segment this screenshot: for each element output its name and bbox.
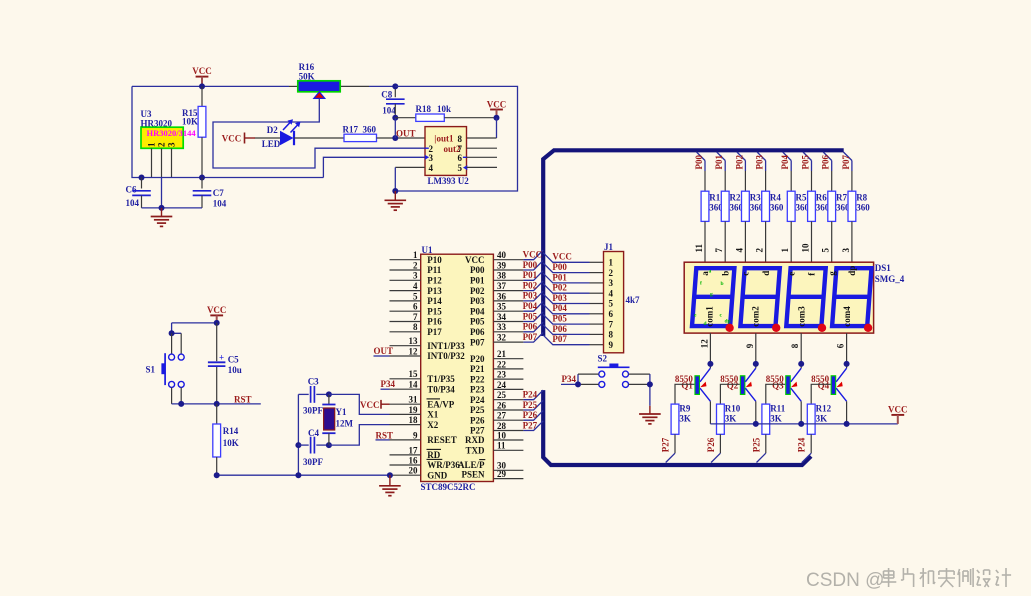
svg-text:e: e bbox=[786, 272, 796, 276]
potentiometer R16 50K bbox=[298, 62, 340, 98]
resistor R6 360 bbox=[808, 191, 830, 221]
svg-text:360: 360 bbox=[770, 202, 784, 212]
wire U1 right pin stubs bbox=[493, 260, 523, 479]
wire U3 pin1 bbox=[151, 148, 153, 177]
resistor R10 3K bbox=[717, 404, 741, 435]
svg-text:R8: R8 bbox=[856, 192, 867, 202]
svg-text:8: 8 bbox=[609, 330, 614, 340]
wire U3 pin3 bbox=[171, 148, 173, 177]
net label P05 J1 side bbox=[552, 314, 567, 324]
svg-text:RST: RST bbox=[234, 394, 252, 404]
watermark CSDN bbox=[806, 568, 1011, 591]
svg-text:3: 3 bbox=[413, 271, 418, 281]
button S1 bbox=[146, 333, 185, 404]
svg-text:P27: P27 bbox=[470, 426, 485, 436]
net label P04 MCU side bbox=[523, 301, 538, 311]
svg-text:104: 104 bbox=[382, 106, 396, 116]
wire Q4 base to R12 bbox=[811, 384, 830, 404]
resistor network J1 4k7 bbox=[604, 242, 641, 353]
node junction S1 top bbox=[169, 330, 175, 336]
svg-text:8: 8 bbox=[790, 343, 800, 348]
svg-text:J1: J1 bbox=[604, 242, 614, 252]
node junction Q4 emitter bbox=[844, 361, 850, 367]
svg-text:b: b bbox=[720, 271, 730, 276]
wire R10 to bus bbox=[711, 434, 720, 462]
svg-text:19: 19 bbox=[409, 405, 419, 415]
svg-text:C5: C5 bbox=[228, 354, 239, 364]
svg-text:R7: R7 bbox=[836, 192, 847, 202]
svg-text:2: 2 bbox=[755, 248, 765, 253]
svg-text:RESET: RESET bbox=[427, 435, 457, 445]
svg-text:3K: 3K bbox=[770, 413, 782, 423]
svg-text:C3: C3 bbox=[308, 376, 319, 386]
svg-text:2: 2 bbox=[413, 260, 418, 270]
svg-text:9: 9 bbox=[745, 343, 755, 348]
node junction ground bbox=[159, 205, 165, 211]
wire bus tap display P04 bbox=[783, 152, 792, 191]
wire bus tap J1 P07 bbox=[543, 335, 603, 345]
net label VCC J1 side bbox=[552, 252, 572, 262]
svg-text:3: 3 bbox=[841, 248, 851, 253]
net label P03 MCU side bbox=[523, 291, 538, 301]
svg-text:P24: P24 bbox=[523, 390, 538, 400]
transistor Q3 8550 bbox=[766, 368, 802, 401]
svg-text:6: 6 bbox=[609, 309, 614, 319]
svg-text:40: 40 bbox=[497, 250, 507, 260]
wire R5 to display pin 1 bbox=[790, 221, 792, 262]
svg-text:VCC: VCC bbox=[465, 255, 485, 265]
svg-text:P03: P03 bbox=[523, 291, 538, 301]
wire LM393 pin7 stub bbox=[467, 147, 498, 149]
svg-text:4: 4 bbox=[413, 281, 418, 291]
wire VCC rail transistors bbox=[710, 423, 897, 425]
net label P03 J1 side bbox=[552, 293, 567, 303]
svg-text:P05: P05 bbox=[552, 314, 567, 324]
node junction Y1 top bbox=[326, 391, 332, 397]
svg-text:12: 12 bbox=[409, 346, 419, 356]
svg-text:INT0/P32: INT0/P32 bbox=[427, 351, 465, 361]
svg-text:6: 6 bbox=[836, 343, 846, 348]
svg-text:34: 34 bbox=[497, 312, 507, 322]
wire U3 pin2 to ground bbox=[161, 148, 163, 208]
wire GND pin20 bbox=[387, 472, 393, 486]
net label P01 MCU side bbox=[523, 270, 538, 280]
node junction Q1 emitter bbox=[707, 361, 713, 367]
capacitor C4 30PF bbox=[298, 428, 329, 467]
svg-text:5: 5 bbox=[458, 163, 463, 173]
svg-text:P05: P05 bbox=[801, 155, 811, 170]
wire R1 to display pin 11 bbox=[704, 221, 706, 262]
svg-text:32: 32 bbox=[497, 333, 507, 343]
power VCC feed for LED bbox=[222, 133, 255, 144]
svg-text:36: 36 bbox=[497, 291, 507, 301]
net label P27 at MCU bbox=[523, 420, 538, 430]
svg-text:S2: S2 bbox=[598, 354, 608, 364]
svg-text:P26: P26 bbox=[470, 415, 485, 425]
button S2 bbox=[598, 354, 630, 388]
wire S2 right to ground bbox=[629, 374, 650, 406]
wire crystal left vertical bbox=[297, 394, 299, 475]
svg-text:d: d bbox=[704, 321, 707, 327]
svg-text:RXD: RXD bbox=[465, 435, 485, 445]
svg-text:P24: P24 bbox=[470, 395, 485, 405]
sensor U3 HR3020 bbox=[141, 109, 197, 148]
svg-text:P26: P26 bbox=[523, 410, 538, 420]
svg-text:3K: 3K bbox=[725, 413, 737, 423]
wire bus tap P24 bbox=[523, 390, 543, 400]
net label P25 rotated bbox=[751, 437, 761, 452]
svg-text:10u: 10u bbox=[228, 365, 242, 375]
svg-text:Q3: Q3 bbox=[772, 381, 784, 391]
resistor R3 360 bbox=[742, 191, 764, 221]
capacitor C3 30PF bbox=[298, 376, 329, 415]
svg-text:P16: P16 bbox=[427, 317, 442, 327]
wire R6 to display pin 10 bbox=[811, 221, 813, 262]
svg-text:RST: RST bbox=[376, 430, 394, 440]
node junction R18/VCC bbox=[494, 115, 500, 121]
pin number 6 display bottom bbox=[836, 343, 846, 348]
transistor Q1 8550 bbox=[675, 368, 711, 401]
resistor R1 360 bbox=[701, 191, 723, 221]
svg-text:R14: R14 bbox=[223, 426, 239, 436]
svg-text:com2: com2 bbox=[751, 306, 761, 327]
svg-text:P03: P03 bbox=[552, 293, 567, 303]
wire R8 to display pin 3 bbox=[851, 221, 853, 262]
svg-text:c: c bbox=[741, 272, 751, 276]
svg-text:LM393 U2: LM393 U2 bbox=[428, 176, 470, 186]
svg-text:12M: 12M bbox=[336, 419, 354, 429]
wire bus tap MCU VCC bbox=[523, 250, 543, 260]
svg-text:VCC: VCC bbox=[207, 305, 227, 315]
net label P05 MCU side bbox=[523, 311, 538, 321]
wire bus tap MCU P06 bbox=[523, 322, 543, 332]
svg-text:dp: dp bbox=[725, 319, 731, 325]
wire bus tap J1 P04 bbox=[543, 304, 603, 314]
pin number 4 display top bbox=[734, 248, 744, 253]
svg-text:P22: P22 bbox=[470, 374, 485, 384]
svg-text:P06: P06 bbox=[821, 155, 831, 170]
net label P06 J1 side bbox=[552, 324, 567, 334]
svg-text:P15: P15 bbox=[427, 306, 442, 316]
wire R7 to display pin 5 bbox=[831, 221, 833, 262]
svg-text:3K: 3K bbox=[679, 413, 691, 423]
svg-text:P25: P25 bbox=[751, 437, 761, 452]
svg-text:P01: P01 bbox=[523, 270, 538, 280]
net label P01 rotated bbox=[714, 155, 724, 170]
crystal Y1 12M bbox=[322, 394, 353, 445]
wire bus tap MCU P05 bbox=[523, 312, 543, 322]
svg-text:P17: P17 bbox=[427, 327, 442, 337]
wire bus tap display P01 bbox=[717, 152, 726, 191]
svg-text:b: b bbox=[721, 281, 724, 287]
net label P03 rotated bbox=[755, 155, 765, 170]
wire VCC top rail bbox=[132, 85, 395, 87]
pin number 8 display bottom bbox=[790, 343, 800, 348]
wire R3 to display pin 4 bbox=[744, 221, 746, 262]
svg-text:50K: 50K bbox=[299, 71, 315, 81]
svg-text:P34: P34 bbox=[562, 374, 577, 384]
svg-text:P34: P34 bbox=[381, 379, 396, 389]
net label P01 J1 side bbox=[552, 272, 567, 282]
wire GND bottom run bbox=[217, 474, 390, 476]
node junction R14 bottom bbox=[214, 472, 220, 478]
power VCC symbol reset bbox=[207, 305, 227, 323]
ground symbol MCU bbox=[379, 486, 401, 496]
svg-text:3: 3 bbox=[429, 153, 434, 163]
svg-text:WR/P36: WR/P36 bbox=[427, 460, 460, 470]
svg-text:R9: R9 bbox=[679, 404, 690, 414]
svg-text:38: 38 bbox=[497, 271, 507, 281]
wire bus tap MCU P03 bbox=[523, 291, 543, 301]
svg-text:26: 26 bbox=[497, 400, 507, 410]
wire Q1 base to R9 bbox=[675, 384, 694, 404]
svg-text:P05: P05 bbox=[523, 311, 538, 321]
wire Q3 collector to rail bbox=[800, 401, 802, 424]
svg-text:Q2: Q2 bbox=[727, 381, 739, 391]
svg-text:10: 10 bbox=[801, 243, 811, 253]
svg-text:GND: GND bbox=[427, 470, 448, 480]
wire X2 bbox=[329, 425, 390, 446]
bus P2 port vertical to bottom run bbox=[543, 390, 811, 465]
wire R11 to bus bbox=[757, 434, 766, 462]
svg-text:+: + bbox=[219, 353, 224, 363]
svg-text:P02: P02 bbox=[552, 283, 567, 293]
net label P24 at MCU bbox=[523, 390, 538, 400]
svg-text:104: 104 bbox=[213, 198, 227, 208]
svg-text:P10: P10 bbox=[427, 255, 442, 265]
svg-text:R18: R18 bbox=[416, 104, 432, 114]
capacitor C8 104 bbox=[381, 86, 404, 117]
wire R12 to bus bbox=[802, 434, 811, 462]
resistor R15 10K bbox=[182, 86, 206, 177]
capacitor C5 10u electrolytic bbox=[208, 323, 242, 404]
wire bus tap display P00 bbox=[697, 152, 706, 191]
svg-text:P04: P04 bbox=[523, 301, 538, 311]
svg-text:10K: 10K bbox=[182, 117, 198, 127]
node junction Y1 bottom bbox=[326, 442, 332, 448]
svg-text:R11: R11 bbox=[770, 404, 786, 414]
svg-text:OUT: OUT bbox=[396, 128, 416, 138]
svg-text:P07: P07 bbox=[523, 332, 538, 342]
bus main vertical with top run bbox=[543, 150, 844, 336]
svg-text:30PF: 30PF bbox=[303, 406, 323, 416]
svg-text:SMG_4: SMG_4 bbox=[875, 274, 905, 284]
svg-text:13: 13 bbox=[409, 336, 419, 346]
resistor R17 360 bbox=[343, 124, 396, 141]
wire bus tap J1 P01 bbox=[543, 273, 603, 283]
pin number 7 display top bbox=[714, 248, 724, 253]
svg-text:X2: X2 bbox=[427, 420, 438, 430]
net label P06 rotated bbox=[821, 155, 831, 170]
svg-text:16: 16 bbox=[409, 455, 419, 465]
wire bus tap MCU P04 bbox=[523, 302, 543, 312]
node junction OUT bbox=[392, 135, 398, 141]
svg-text:EA/VP: EA/VP bbox=[427, 399, 455, 409]
net label P24 rotated bbox=[797, 437, 807, 452]
svg-text:OUT: OUT bbox=[374, 346, 394, 356]
net label P07 J1 side bbox=[552, 334, 567, 344]
svg-text:P26: P26 bbox=[706, 437, 716, 452]
node junction crystal left bottom bbox=[295, 472, 301, 478]
wire Q3 base to R11 bbox=[766, 384, 785, 404]
svg-text:P11: P11 bbox=[427, 265, 442, 275]
resistor R4 360 bbox=[762, 191, 784, 221]
svg-text:VCC: VCC bbox=[888, 404, 908, 414]
svg-text:P13: P13 bbox=[427, 286, 442, 296]
svg-text:R4: R4 bbox=[770, 192, 781, 202]
node junction R15/C7 bbox=[199, 175, 205, 181]
svg-text:C6: C6 bbox=[126, 184, 137, 194]
node junction VCC/R15 bbox=[199, 83, 205, 89]
wire RST node bbox=[172, 403, 261, 405]
wire left loop down to C6 node bbox=[132, 86, 142, 177]
svg-text:P01: P01 bbox=[470, 276, 485, 286]
svg-text:VCC: VCC bbox=[192, 66, 212, 76]
node junction LM393 ground bbox=[392, 188, 398, 194]
resistor R9 3K bbox=[671, 404, 691, 435]
pin number 12 display bottom bbox=[699, 339, 709, 349]
net label P02 MCU side bbox=[523, 280, 538, 290]
svg-text:P05: P05 bbox=[470, 317, 485, 327]
pin number 10 display top bbox=[801, 243, 811, 253]
net label P00 MCU side bbox=[523, 260, 538, 270]
svg-text:P07: P07 bbox=[470, 337, 485, 347]
node junction rail Q3 bbox=[798, 421, 804, 427]
svg-text:com3: com3 bbox=[796, 306, 806, 327]
svg-text:35: 35 bbox=[497, 302, 507, 312]
svg-text:TXD: TXD bbox=[465, 446, 485, 456]
svg-text:P03: P03 bbox=[470, 296, 485, 306]
net label P26 at MCU bbox=[523, 410, 538, 420]
svg-text:g: g bbox=[710, 292, 713, 298]
svg-text:Q4: Q4 bbox=[818, 381, 830, 391]
svg-text:P04: P04 bbox=[470, 306, 485, 316]
resistor R14 10K bbox=[213, 404, 239, 475]
svg-text:5: 5 bbox=[821, 248, 831, 253]
wire ground bottom left bbox=[142, 207, 203, 209]
wire bus tap display P02 bbox=[737, 152, 746, 191]
op-amp U2 LM393 bbox=[425, 127, 470, 186]
svg-text:11: 11 bbox=[694, 243, 704, 252]
svg-text:P02: P02 bbox=[523, 280, 538, 290]
svg-text:2: 2 bbox=[157, 142, 167, 147]
svg-text:P24: P24 bbox=[797, 437, 807, 452]
svg-text:8: 8 bbox=[458, 134, 463, 144]
net label P04 rotated bbox=[780, 155, 790, 170]
wire R4 to display pin 2 bbox=[765, 221, 767, 262]
svg-text:LED: LED bbox=[262, 139, 281, 149]
net label P04 J1 side bbox=[552, 303, 567, 313]
svg-text:P12: P12 bbox=[427, 276, 442, 286]
svg-text:T1/P35: T1/P35 bbox=[427, 374, 455, 384]
net label P02 rotated bbox=[734, 155, 744, 170]
pin number 9 display bottom bbox=[745, 343, 755, 348]
svg-text:RD: RD bbox=[427, 450, 440, 460]
wire bus tap display P06 bbox=[823, 152, 832, 191]
svg-text:10k: 10k bbox=[437, 104, 451, 114]
svg-text:P06: P06 bbox=[470, 327, 485, 337]
svg-text:VCC: VCC bbox=[523, 250, 543, 260]
wire display com3 down bbox=[800, 333, 802, 368]
wire bus tap J1 P03 bbox=[543, 294, 603, 304]
node junction Q3 emitter bbox=[798, 361, 804, 367]
svg-text:30PF: 30PF bbox=[303, 457, 323, 467]
transistor Q2 8550 bbox=[720, 368, 756, 401]
svg-text:9: 9 bbox=[413, 430, 418, 440]
wire LM393 pin4 to ground bbox=[395, 167, 425, 191]
svg-text:R10: R10 bbox=[725, 404, 741, 414]
wire P34 to S2 bbox=[561, 374, 599, 384]
svg-text:P20: P20 bbox=[470, 354, 485, 364]
svg-text:P23: P23 bbox=[470, 385, 485, 395]
svg-text:DS1: DS1 bbox=[875, 263, 892, 273]
wire ground return loop right bbox=[395, 86, 517, 191]
svg-text:C8: C8 bbox=[381, 89, 392, 99]
node junction VCC/C5 bbox=[214, 320, 220, 326]
svg-text:R6: R6 bbox=[816, 192, 827, 202]
net label P25 at MCU bbox=[523, 400, 538, 410]
svg-text:P21: P21 bbox=[470, 364, 485, 374]
svg-text:C7: C7 bbox=[213, 188, 224, 198]
svg-text:P06: P06 bbox=[552, 324, 567, 334]
node junction C8/R18 bbox=[392, 115, 398, 121]
wire bus tap P26 bbox=[523, 411, 543, 421]
net label P27 rotated bbox=[661, 437, 671, 452]
svg-text:360: 360 bbox=[363, 124, 377, 134]
svg-text:2: 2 bbox=[609, 268, 614, 278]
wire bus tap MCU P01 bbox=[523, 271, 543, 281]
svg-text:P04: P04 bbox=[552, 303, 567, 313]
svg-text:4k7: 4k7 bbox=[626, 295, 641, 305]
pin number 3 display top bbox=[841, 248, 851, 253]
net label RST bbox=[234, 394, 252, 404]
resistor R18 10k bbox=[395, 104, 496, 122]
wire Q2 collector to rail bbox=[755, 401, 757, 424]
svg-text:5: 5 bbox=[609, 299, 614, 309]
svg-text:R3: R3 bbox=[750, 192, 761, 202]
ground symbol S2 bbox=[639, 406, 661, 424]
svg-text:f: f bbox=[700, 281, 702, 287]
svg-text:P01: P01 bbox=[714, 155, 724, 170]
resistor R7 360 bbox=[828, 191, 850, 221]
net label P26 rotated bbox=[706, 437, 716, 452]
svg-text:4: 4 bbox=[429, 163, 434, 173]
wire C8 node down to OUT bbox=[394, 118, 396, 138]
svg-text:P00: P00 bbox=[470, 265, 485, 275]
svg-text:P07: P07 bbox=[841, 155, 851, 170]
capacitor C7 104 bbox=[193, 178, 227, 209]
wire sensor output long run y=177.5 bbox=[142, 157, 426, 177]
wire bus tap P25 bbox=[523, 400, 543, 410]
node junction C6 bbox=[139, 175, 145, 181]
power VCC feed EA/VP bbox=[360, 400, 390, 410]
resistor R11 3K bbox=[762, 404, 786, 435]
ground symbol sensor bbox=[151, 208, 173, 227]
node junction S1 bottom bbox=[178, 401, 184, 407]
svg-text:d: d bbox=[761, 271, 771, 276]
node junction C8 top bbox=[392, 83, 398, 89]
svg-text:11: 11 bbox=[497, 441, 506, 451]
wire bus tap P27 bbox=[523, 421, 543, 431]
svg-text:P07: P07 bbox=[552, 334, 567, 344]
svg-text:g: g bbox=[827, 271, 837, 276]
svg-text:P14: P14 bbox=[427, 296, 442, 306]
wire bus tap MCU P07 bbox=[523, 333, 543, 343]
resistor R8 360 bbox=[848, 191, 870, 221]
svg-text:D2: D2 bbox=[267, 125, 278, 135]
svg-text:R2: R2 bbox=[730, 192, 741, 202]
wire reset top node bbox=[172, 323, 217, 333]
